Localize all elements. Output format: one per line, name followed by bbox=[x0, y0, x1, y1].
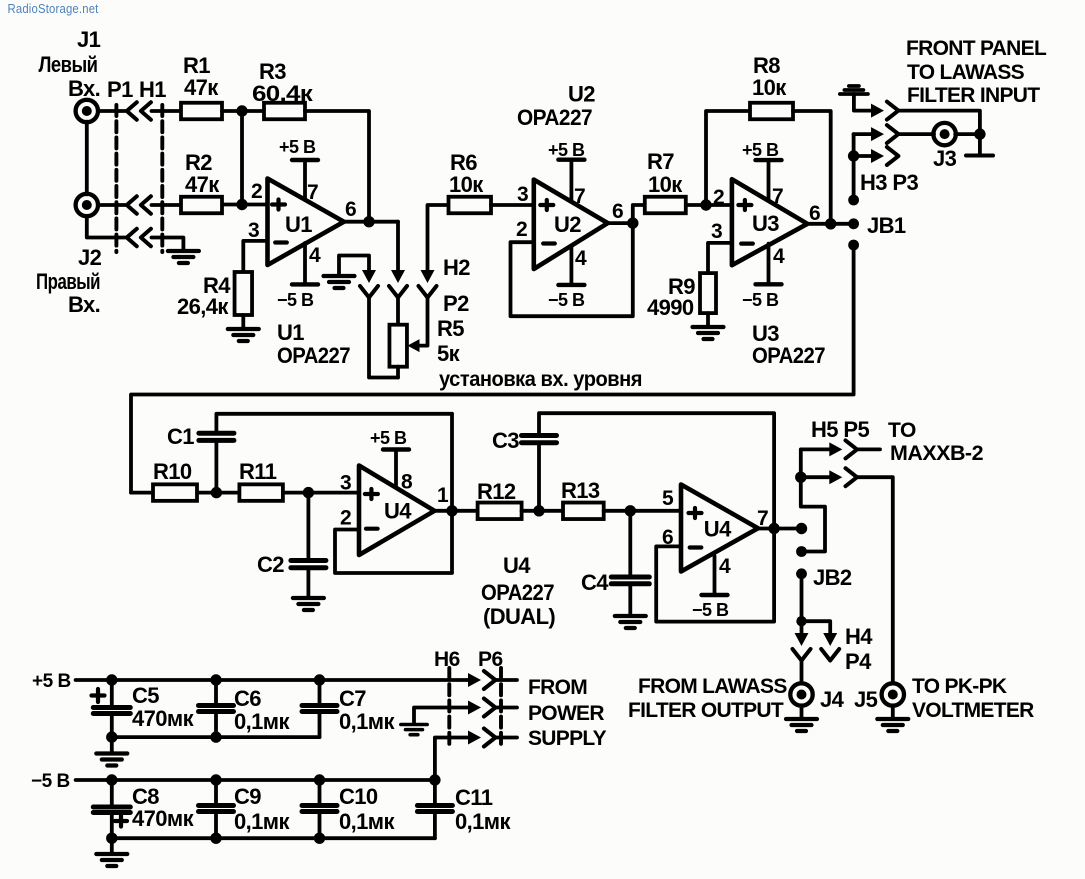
node J3 junction bbox=[974, 128, 985, 139]
wire +5V bottom rail bbox=[112, 735, 320, 739]
wire C1 bottom bbox=[214, 440, 218, 492]
wire C5 to ground bbox=[110, 737, 114, 752]
label R7 bbox=[647, 149, 683, 197]
U2 pin 3 label bbox=[517, 183, 528, 206]
label U3 OPA227 bbox=[752, 321, 825, 368]
svg-text:1: 1 bbox=[437, 484, 449, 507]
label Правый Вх. bbox=[36, 269, 100, 317]
U2 minus sign bbox=[543, 241, 555, 245]
svg-text:U2: U2 bbox=[554, 212, 581, 237]
wire H1 to R2 bbox=[152, 203, 182, 207]
svg-text:C11: C11 bbox=[455, 785, 493, 810]
U4b minus sign bbox=[690, 545, 702, 549]
U4a pin 8 label bbox=[401, 471, 413, 494]
wire J2 to P1 bbox=[98, 203, 125, 207]
wire C7 leads bbox=[318, 680, 322, 737]
svg-text:(DUAL): (DUAL) bbox=[483, 604, 555, 629]
wire R13 to U4b pin5 bbox=[604, 509, 681, 513]
wire J5 to ground bbox=[891, 705, 895, 718]
label R2 bbox=[185, 150, 220, 197]
connector H1 chevron row1 bbox=[141, 102, 151, 119]
ground C4 bbox=[615, 616, 646, 628]
wire H5 row2 stub bbox=[801, 475, 830, 479]
resistor R3 bbox=[264, 103, 305, 120]
jack J5 bbox=[882, 683, 904, 705]
wire JB2 down bbox=[800, 574, 804, 633]
label H1 bbox=[139, 77, 166, 102]
ground C8 bbox=[96, 854, 127, 866]
svg-text:U3: U3 bbox=[752, 211, 779, 236]
svg-text:OPA227: OPA227 bbox=[752, 343, 825, 368]
svg-text:H6: H6 bbox=[434, 648, 460, 671]
resistor R7 bbox=[645, 197, 686, 214]
wire R1 to node A bbox=[222, 109, 264, 113]
svg-text:C6: C6 bbox=[234, 686, 261, 711]
connector P4 chevron right bbox=[821, 649, 839, 661]
ground J5 bbox=[877, 719, 908, 731]
U1 pin 7 label bbox=[307, 181, 318, 204]
wire R11 to U4a pin3 bbox=[283, 491, 359, 495]
node C9 bottom bbox=[210, 833, 221, 844]
connector H6 arrow row1 bbox=[468, 673, 481, 687]
svg-text:470мк: 470мк bbox=[132, 806, 195, 831]
node U4a out junction bbox=[446, 505, 457, 516]
connector P6 chevron row2 bbox=[484, 699, 496, 717]
connector H1 chevron row2 bbox=[141, 196, 151, 213]
svg-text:7: 7 bbox=[574, 185, 585, 208]
node C6 top bbox=[210, 674, 221, 685]
svg-text:0,1мк: 0,1мк bbox=[339, 809, 395, 834]
U4a pin 1 label bbox=[437, 484, 449, 507]
svg-text:JB1: JB1 bbox=[867, 213, 906, 238]
connector P2 chevron col1 bbox=[360, 286, 378, 298]
connector H1 chevron row3 bbox=[141, 229, 151, 246]
svg-text:C7: C7 bbox=[339, 686, 366, 711]
connector P3 chevron row3 bbox=[887, 147, 899, 165]
wire H1 to R1 bbox=[152, 109, 182, 113]
U2 pin 2 label bbox=[516, 218, 527, 241]
wire C4 top bbox=[628, 511, 632, 577]
connector P4 chevron left bbox=[793, 649, 811, 661]
wire R8 feedback left bbox=[706, 111, 750, 205]
svg-text:C2: C2 bbox=[257, 552, 284, 577]
svg-text:C10: C10 bbox=[339, 784, 378, 809]
svg-text:Вх.: Вх. bbox=[68, 76, 100, 101]
wire P2 col1 down bbox=[369, 298, 398, 378]
U4a plus sign bbox=[365, 489, 378, 499]
wire J1 to P1 bbox=[98, 109, 125, 113]
svg-text:RadioStorage.net: RadioStorage.net bbox=[8, 1, 99, 16]
svg-text:3: 3 bbox=[711, 220, 722, 243]
U1 pin 2 label bbox=[251, 180, 262, 203]
svg-text:26,4к: 26,4к bbox=[177, 294, 229, 319]
resistor R10 bbox=[153, 484, 197, 501]
U2 inside label bbox=[554, 212, 581, 237]
wire frame to R10 bbox=[131, 491, 153, 495]
wire P2 col3 wiper bbox=[419, 298, 428, 346]
wire U3 output bbox=[807, 222, 853, 226]
svg-text:47к: 47к bbox=[185, 172, 220, 197]
resistor R2 bbox=[181, 197, 222, 214]
svg-text:FROM: FROM bbox=[528, 676, 587, 699]
wire +5V rail bbox=[76, 678, 469, 682]
wire C10 leads bbox=[318, 780, 322, 838]
wire R8 right to U3 out bbox=[793, 111, 831, 224]
svg-text:3: 3 bbox=[248, 219, 259, 242]
wire C4 to ground bbox=[628, 584, 632, 615]
svg-text:P6: P6 bbox=[478, 648, 503, 671]
connector H5 arrow row1 bbox=[829, 442, 842, 456]
wire J4 to ground bbox=[800, 705, 804, 718]
svg-text:JB2: JB2 bbox=[813, 565, 852, 590]
wire U2 out to R7 bbox=[633, 205, 645, 223]
svg-text:7: 7 bbox=[757, 507, 768, 530]
ground J3 bbox=[966, 154, 993, 158]
node H3 row3 junction bbox=[848, 150, 859, 161]
wire P2 col2 to R5 bbox=[396, 298, 400, 325]
wire C2 top bbox=[306, 493, 310, 561]
R5 wiper arrow bbox=[408, 339, 420, 352]
node F junction bbox=[533, 505, 544, 516]
connector P6 dashed line bbox=[499, 668, 503, 748]
wire C1 top feedback bbox=[216, 414, 452, 433]
pad U4b out end bbox=[796, 523, 807, 534]
node A junction bbox=[236, 105, 247, 116]
label R5 bbox=[437, 316, 464, 366]
label TO PK-PK VOLTMETER bbox=[912, 675, 1034, 722]
connector H6 arrow row2 bbox=[468, 701, 481, 715]
connector P6 chevron row1 bbox=[484, 671, 496, 689]
resistor R9 bbox=[700, 273, 716, 313]
connector P3 chevron row2 bbox=[887, 125, 899, 143]
node C6 bottom bbox=[210, 731, 221, 742]
capacitor C5 polarity bbox=[92, 689, 105, 702]
U1 plus sign bbox=[272, 200, 285, 210]
node U1 out junction bbox=[363, 216, 374, 227]
label C6 bbox=[234, 686, 290, 734]
svg-text:−5 В: −5 В bbox=[548, 290, 585, 310]
label R8 bbox=[752, 53, 787, 100]
svg-text:+5 В: +5 В bbox=[370, 428, 407, 448]
svg-text:C1: C1 bbox=[167, 424, 194, 449]
svg-text:R5: R5 bbox=[437, 316, 464, 341]
wire U2 feedback bbox=[511, 223, 633, 316]
label U1 +5V bbox=[279, 137, 316, 157]
connector P1 chevron row1 bbox=[127, 102, 137, 119]
connector P2 chevron col3 bbox=[419, 286, 437, 298]
svg-text:C4: C4 bbox=[581, 570, 609, 595]
wire P5 row1 out bbox=[857, 447, 880, 451]
label FROM POWER SUPPLY bbox=[528, 676, 607, 750]
op-amp U4b bbox=[681, 485, 758, 572]
wire R4 to ground bbox=[241, 315, 245, 328]
U1 minus sign bbox=[275, 240, 287, 244]
U1 inside label bbox=[285, 212, 312, 237]
node C junction bbox=[700, 199, 711, 210]
resistor R6 bbox=[449, 197, 492, 214]
U3 pin 4 label bbox=[773, 245, 785, 268]
wire C8 bottom lead bbox=[110, 813, 114, 839]
wire C11 leads bbox=[433, 780, 437, 838]
label J3 bbox=[933, 146, 957, 171]
jack J2 bbox=[76, 194, 98, 216]
svg-text:2: 2 bbox=[713, 186, 724, 209]
wire -5V to H6 row3 bbox=[435, 738, 469, 781]
label C11 bbox=[455, 785, 511, 834]
wire J3 to ground bbox=[978, 134, 982, 154]
svg-text:MAXXB-2: MAXXB-2 bbox=[890, 442, 983, 465]
svg-text:J2: J2 bbox=[78, 245, 102, 270]
svg-text:Правый: Правый bbox=[36, 269, 100, 294]
svg-text:4: 4 bbox=[309, 244, 321, 267]
svg-text:−5 В: −5 В bbox=[692, 600, 729, 620]
U3 pin 2 label bbox=[713, 186, 724, 209]
wire P6 row3 out bbox=[495, 736, 517, 740]
U2 pin 7 label bbox=[574, 185, 585, 208]
wire H3 row2 to row3 bbox=[852, 134, 856, 200]
svg-text:Р2: Р2 bbox=[443, 291, 469, 316]
U2 plus sign bbox=[540, 200, 553, 210]
label R1 bbox=[183, 53, 219, 100]
capacitor C11 bbox=[417, 806, 452, 812]
label C5 bbox=[132, 683, 195, 731]
pad JB2 bbox=[796, 568, 807, 579]
svg-text:0,1мк: 0,1мк bbox=[234, 809, 290, 834]
resistor R12 bbox=[478, 503, 522, 520]
label J2 bbox=[78, 245, 102, 270]
capacitor C1 bbox=[199, 433, 234, 440]
svg-text:TO: TO bbox=[888, 419, 916, 442]
svg-text:P4: P4 bbox=[845, 649, 872, 674]
svg-text:SUPPLY: SUPPLY bbox=[528, 727, 607, 750]
label C2 bbox=[257, 552, 284, 577]
U1 -5V supply bbox=[292, 243, 318, 284]
wire JB1 to lower section bbox=[131, 245, 854, 493]
capacitor C8 bbox=[93, 807, 130, 813]
svg-text:VOLTMETER: VOLTMETER bbox=[912, 699, 1034, 722]
wire P6 row2 out bbox=[495, 706, 517, 710]
ground H6 row2 bbox=[401, 725, 427, 735]
wire gnd to H3 row1 bbox=[854, 94, 871, 111]
connector P5 chevron row1 bbox=[846, 440, 858, 458]
svg-text:R12: R12 bbox=[477, 479, 516, 504]
label H2 bbox=[443, 255, 470, 280]
svg-text:10к: 10к bbox=[449, 172, 484, 197]
node C9 top bbox=[210, 774, 221, 785]
label P2 bbox=[443, 291, 469, 316]
wire J2 shield bbox=[87, 216, 125, 238]
U3 pin 6 label bbox=[809, 202, 820, 225]
node C5 top bbox=[106, 674, 117, 685]
node B junction bbox=[236, 199, 247, 210]
U4b pin 7 label bbox=[757, 507, 768, 530]
node E junction bbox=[303, 487, 314, 498]
svg-text:7: 7 bbox=[772, 185, 783, 208]
node U4b out junction bbox=[768, 523, 779, 534]
svg-text:C5: C5 bbox=[132, 683, 159, 708]
op-amp U4a bbox=[359, 466, 435, 556]
svg-text:C3: C3 bbox=[492, 428, 519, 453]
connector H6 arrow row3 bbox=[468, 731, 481, 745]
connector H4 arrow left bbox=[795, 633, 809, 646]
wire C8 top lead bbox=[110, 780, 114, 807]
capacitor C6 bbox=[199, 706, 234, 712]
wire U4a output bbox=[435, 509, 478, 513]
svg-text:H5 P5: H5 P5 bbox=[811, 417, 870, 442]
U2 -5V supply bbox=[558, 247, 584, 285]
wire R5 bottom bbox=[396, 367, 400, 378]
label C9 bbox=[234, 784, 290, 834]
node C8 bottom bbox=[106, 833, 117, 844]
wire J1 to J2 bbox=[85, 122, 89, 195]
connector P5 chevron row2 bbox=[846, 468, 858, 486]
wire R2 to U1 pin2 bbox=[223, 203, 268, 207]
connector H4 arrow right bbox=[823, 633, 837, 646]
wire R3 to U1 output bbox=[305, 111, 369, 222]
svg-text:R10: R10 bbox=[153, 459, 192, 484]
ground R9 bbox=[693, 327, 724, 339]
label R9 bbox=[647, 274, 695, 320]
connector H5 arrow row2 bbox=[829, 470, 842, 484]
op-amp U3 bbox=[732, 179, 808, 265]
connector P1 chevron row3 bbox=[127, 229, 137, 246]
wire gnd to H6 row2 bbox=[414, 708, 469, 724]
resistor R13 bbox=[563, 503, 604, 520]
svg-text:TO PK-PK: TO PK-PK bbox=[912, 675, 1007, 698]
U4b plus sign bbox=[689, 508, 702, 518]
ground C5 bbox=[96, 754, 127, 766]
label C3 bbox=[492, 428, 519, 453]
wire P6 row1 out bbox=[495, 678, 517, 682]
connector P2 chevron col2 bbox=[389, 286, 407, 298]
label U2 -5V bbox=[548, 290, 585, 310]
wire U4b feedback bbox=[656, 529, 774, 622]
svg-text:Левый: Левый bbox=[39, 52, 98, 77]
ground H3 row1 bbox=[840, 86, 868, 94]
svg-text:FROM LAWASS: FROM LAWASS bbox=[638, 675, 787, 698]
wire R9 to ground bbox=[706, 313, 710, 326]
svg-text:10к: 10к bbox=[752, 75, 787, 100]
ground shield bbox=[168, 251, 199, 263]
label -5V rail bbox=[31, 771, 70, 792]
label R3 bbox=[252, 59, 314, 106]
svg-text:4990: 4990 bbox=[647, 295, 694, 320]
svg-text:U2: U2 bbox=[568, 82, 595, 107]
pad jog end bbox=[796, 546, 807, 557]
label P4 bbox=[845, 649, 872, 674]
svg-text:−5 В: −5 В bbox=[31, 771, 70, 792]
svg-text:установка вх. уровня: установка вх. уровня bbox=[439, 368, 642, 391]
connector H3 arrow row2 bbox=[871, 127, 884, 141]
wire H3 row2 stub bbox=[854, 132, 871, 136]
wire JB2 branch right bbox=[802, 621, 831, 633]
svg-text:60,4к: 60,4к bbox=[252, 81, 314, 106]
svg-text:2: 2 bbox=[340, 507, 351, 530]
svg-text:OPA227: OPA227 bbox=[481, 580, 554, 605]
svg-text:7: 7 bbox=[307, 181, 318, 204]
wire H3 row3 stub bbox=[854, 154, 871, 158]
svg-text:POWER: POWER bbox=[528, 702, 604, 725]
connector P1 dashed line bbox=[160, 105, 164, 252]
U4a inside label bbox=[384, 499, 412, 524]
svg-text:5к: 5к bbox=[437, 341, 461, 366]
wire row2 jog around output bbox=[801, 477, 825, 551]
wire R6 left to H2 bbox=[428, 205, 449, 270]
U3 plus sign bbox=[738, 200, 751, 210]
wire C5 bottom lead bbox=[110, 714, 114, 738]
label H6 P6 bbox=[434, 648, 503, 671]
svg-text:Н1: Н1 bbox=[139, 77, 166, 102]
svg-text:OPA227: OPA227 bbox=[517, 105, 592, 130]
U3 +5V supply bbox=[756, 160, 782, 201]
svg-text:47к: 47к bbox=[184, 75, 219, 100]
svg-text:TO LAWASS: TO LAWASS bbox=[907, 61, 1025, 84]
U1 pin 4 label bbox=[309, 244, 321, 267]
svg-text:3: 3 bbox=[517, 183, 528, 206]
U4b inside label bbox=[704, 517, 732, 542]
label JB1 bbox=[867, 213, 906, 238]
U3 pin 3 label bbox=[711, 220, 722, 243]
node C5 bottom bbox=[106, 731, 117, 742]
svg-text:FILTER OUTPUT: FILTER OUTPUT bbox=[628, 699, 784, 722]
wire C3 bottom bbox=[537, 443, 541, 511]
label R4 bbox=[177, 273, 231, 319]
connector H3 arrow row1 bbox=[871, 104, 884, 118]
U3 -5V supply bbox=[756, 244, 782, 285]
pad JB1 bottom bbox=[848, 240, 859, 251]
connector H2 arrow col2 bbox=[391, 270, 405, 283]
label R12 bbox=[477, 479, 516, 504]
svg-text:U1: U1 bbox=[285, 212, 312, 237]
capacitor C5 bbox=[93, 708, 130, 714]
capacitor C3 bbox=[522, 436, 557, 443]
capacitor C8 polarity bbox=[115, 816, 127, 827]
label H4 bbox=[845, 624, 873, 649]
svg-text:R13: R13 bbox=[561, 478, 600, 503]
svg-text:−5 В: −5 В bbox=[742, 290, 779, 310]
pad JB1 top bbox=[848, 195, 859, 206]
connector P1 chevron row2 bbox=[127, 196, 137, 213]
svg-text:2: 2 bbox=[251, 180, 262, 203]
svg-text:−5 В: −5 В bbox=[277, 290, 314, 310]
capacitor C7 bbox=[302, 706, 337, 712]
svg-text:0,1мк: 0,1мк bbox=[234, 709, 290, 734]
U4a pin 3 label bbox=[340, 472, 351, 495]
svg-text:R11: R11 bbox=[239, 459, 277, 484]
node D junction bbox=[211, 487, 222, 498]
U1 pin 3 label bbox=[248, 219, 259, 242]
resistor R11 bbox=[239, 484, 283, 501]
ground C2 bbox=[293, 598, 324, 610]
capacitor C4 bbox=[611, 577, 649, 584]
wire U2 output bbox=[608, 221, 633, 225]
node U3 out junction bbox=[825, 218, 836, 229]
wire U4a feedback bbox=[335, 414, 452, 573]
svg-text:+5 В: +5 В bbox=[548, 140, 585, 160]
wire R6 to U2 pin3 bbox=[491, 203, 534, 207]
connector H1 dashed line bbox=[114, 105, 118, 252]
node C8 top bbox=[106, 774, 117, 785]
capacitor C10 bbox=[302, 806, 337, 812]
wire -5V rail bbox=[76, 778, 435, 782]
wire R7 to U3 pin2 bbox=[686, 203, 732, 207]
U4a pin 2 label bbox=[340, 507, 351, 530]
label H5 P5 bbox=[811, 417, 870, 442]
label установка вх. уровня bbox=[439, 368, 642, 391]
wire P5 row2 to J5 bbox=[857, 477, 893, 683]
label J4 bbox=[820, 687, 845, 712]
wire U4b output bbox=[758, 527, 802, 531]
